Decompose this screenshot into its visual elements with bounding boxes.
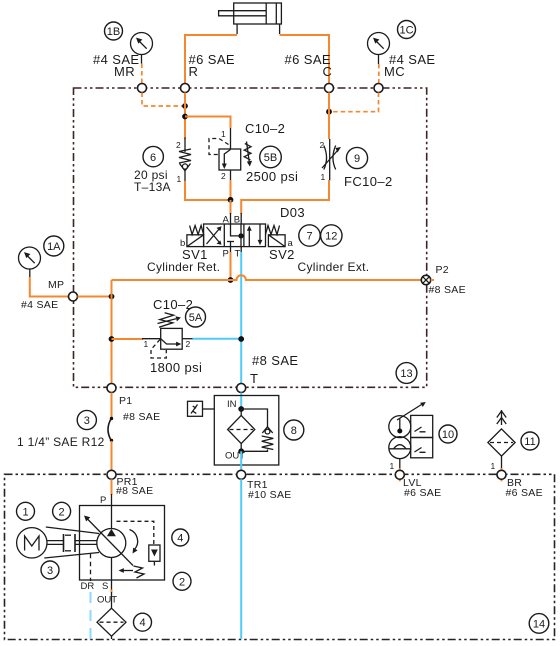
wire C riser [328,93,330,140]
svg-text:14: 14 [533,618,545,630]
D03 box1 crossed arrows [207,226,222,245]
svg-text:2500 psi: 2500 psi [246,169,298,184]
gauge 1C [368,33,390,65]
wire T node to filter IN (cyan) [240,393,242,410]
node LVL [395,470,404,479]
svg-text:OUT: OUT [225,451,245,462]
wire R riser [184,93,186,140]
ref circle 12 [321,225,342,246]
check valve 6 [179,138,191,183]
svg-text:T: T [235,249,241,260]
wire gauge 1A to node MP [30,277,69,297]
cylinder port R-side [236,24,238,34]
svg-text:MR: MR [114,64,135,79]
ref circle 5B [260,146,282,168]
gauge 1A [19,247,41,278]
ref circle 3 (motor) [41,561,59,579]
relief 5A spring [159,313,174,327]
svg-text:P2: P2 [436,264,449,276]
wire FC to rail and B-drop [241,180,329,214]
svg-text:1: 1 [221,129,226,139]
wire TR1 to tank (cyan) [240,479,242,639]
filter element (diamond) [228,409,255,451]
suction strainer 4 [97,592,126,639]
svg-text:#8 SAE: #8 SAE [123,411,160,423]
ref circle 2 (spring) [173,572,191,590]
junction dot MR link [182,103,188,109]
svg-text:1: 1 [22,506,28,518]
gauge 1B [131,33,153,64]
svg-text:R: R [189,64,199,79]
svg-text:2: 2 [176,140,181,150]
svg-text:1 1/4” SAE R12: 1 1/4” SAE R12 [17,435,105,449]
svg-text:DR: DR [81,581,95,592]
wire gauge 1C to node MC (orange dashed) [378,64,380,84]
ref circle 1A [44,236,64,256]
svg-text:9: 9 [354,153,360,165]
svg-text:P: P [100,495,106,506]
svg-text:FC10–2: FC10–2 [344,174,393,189]
relief valve 5B C10-2 [209,128,252,181]
svg-text:Cylinder Ext.: Cylinder Ext. [298,260,370,274]
svg-text:5A: 5A [189,312,203,324]
cylinder rod [219,11,267,16]
svg-text:11: 11 [524,436,535,448]
relief 5B pilot dashed [209,139,229,155]
svg-text:7: 7 [306,231,312,243]
ref circle 5A [186,307,206,327]
D03 left spring [190,226,204,235]
D03 box3 parallel arrows [247,225,262,247]
svg-text:13: 13 [400,368,412,380]
node TR1 [237,470,246,479]
svg-text:#8 SAE: #8 SAE [116,485,153,497]
svg-text:#10 SAE: #10 SAE [248,489,292,501]
pump compensator [117,521,161,578]
ref circle 11 [521,432,539,450]
svg-text:1C: 1C [399,25,413,37]
case drain line to tank (cyan dashed) [90,592,92,639]
wire MR dashed link to R riser [142,93,183,107]
svg-text:1A: 1A [47,241,61,253]
node C [325,84,334,93]
node MR [138,84,147,93]
ref circle 1C [398,21,416,39]
pressure rail MP/P2 (with hop over T line) [112,275,422,280]
wire PR1 to pump P [111,479,113,495]
motor-pump coupling [44,527,99,558]
svg-text:1: 1 [390,461,395,471]
svg-text:#6 SAE: #6 SAE [404,487,441,499]
wire T-drop black stub [240,247,242,253]
flow control 9 FC10-2 [322,139,341,181]
cylinder port C-side [279,24,281,34]
svg-text:2: 2 [59,506,65,518]
svg-text:1: 1 [491,461,496,471]
svg-text:P: P [223,249,229,260]
junction dot P rail [228,277,234,283]
reservoir boundary box (lower, black phantom) [5,474,555,639]
svg-text:MP: MP [48,279,64,291]
wire P-drop orange [230,252,232,280]
wire A-drop black stub [230,213,232,224]
svg-text:10: 10 [442,429,454,441]
svg-text:1: 1 [177,174,182,184]
pump unit box [80,506,165,581]
wire relief 5B outlet to rail [230,180,232,198]
junction dot rail A [228,197,234,203]
junction dot OUT [238,448,244,454]
wire 5A outlet cyan to T line [193,338,242,340]
svg-text:8: 8 [291,425,297,437]
ref circle 9 [346,147,367,168]
svg-text:C10–2: C10–2 [153,297,193,312]
riser P (vertical main pressure line) [111,280,113,384]
wire branch to relief 5B inlet [185,117,231,129]
svg-text:3: 3 [47,565,53,577]
svg-text:5B: 5B [264,152,277,164]
node T [237,384,246,393]
ref circle 10 [439,425,457,443]
motor-pump cone lines [46,527,99,534]
svg-text:P1: P1 [119,395,132,407]
hose symbol [108,418,112,441]
directional valve D03 body [204,224,266,247]
node BR [497,470,506,479]
svg-text:6: 6 [150,152,156,164]
wire A-drop [230,200,232,214]
wire B-drop black stub [240,213,242,224]
D03 solenoid SV1 [187,235,204,247]
ref circle 3 [77,410,96,429]
node P1 [107,384,116,393]
junction dot MC link [326,109,332,115]
ref circle 1B [105,22,123,40]
wire pump S line [111,558,113,590]
junction dot relief branch [182,114,188,120]
D03 right spring [266,226,280,235]
node R [181,84,190,93]
pump 4 (variable displacement) [84,516,138,566]
wire cylinder R-side to node R [185,35,237,84]
svg-text:2: 2 [320,140,325,150]
pump case drain dashed [90,554,92,581]
svg-text:T: T [250,371,258,386]
system boundary box (upper, maroon phantom) [74,88,427,387]
svg-text:1: 1 [144,339,149,349]
filter bypass check valve [241,409,273,451]
junction dot riser/5A branch [109,336,115,342]
ref circle 8 [284,420,304,440]
junction dot IN [238,406,244,412]
wire MC dashed link to C riser [331,93,379,112]
wire cylinder C-side to node C [280,35,329,84]
node MC [374,84,383,93]
junction dot T line / 5A [238,336,244,342]
electric motor M [17,528,47,558]
cylinder CYL [219,3,282,34]
wire hose to PR1 [111,441,113,470]
svg-text:2: 2 [186,339,191,349]
svg-text:4: 4 [139,617,145,629]
svg-text:#8 SAE: #8 SAE [429,284,466,296]
relief 5B spring [244,144,251,160]
relief 5A pilot dashed [151,340,166,359]
svg-text:3: 3 [84,415,90,427]
svg-text:1B: 1B [107,26,120,38]
port P2 symbol [421,275,430,284]
ref circle 1 [17,502,35,520]
svg-text:12: 12 [325,231,337,243]
wire check valve to rail and A-drop rail [185,181,231,200]
svg-text:T–13A: T–13A [134,180,171,194]
svg-text:IN: IN [227,399,237,410]
svg-text:#6 SAE: #6 SAE [506,487,543,499]
wire P1 to hose [111,393,113,419]
svg-text:2: 2 [221,171,226,181]
ref circle 4 (strainer) [134,613,152,631]
svg-text:#4 SAE: #4 SAE [21,299,58,311]
svg-text:1800 psi: 1800 psi [150,360,202,375]
svg-text:D03: D03 [280,205,305,220]
ref circle 2 (top) [53,502,71,520]
ref circle 4 (comp) [172,529,189,546]
svg-text:C: C [323,64,333,79]
node PR1 [107,470,116,479]
temp sensor box [188,401,215,416]
wire P-drop black stub [230,247,232,253]
svg-text:S: S [102,581,108,592]
wire T line cyan (valve T to tank node T) [240,252,242,385]
svg-text:4: 4 [177,533,183,545]
junction dot riser/MP [109,294,115,300]
ref circle 7 [299,225,320,246]
node MP [69,292,78,301]
ref circle 14 [529,614,549,634]
wire filter OUT to TR1 (cyan) [240,451,242,470]
ref circle 13 [396,363,417,384]
wire gauge 1B to node MR (orange dashed) [141,64,143,84]
svg-text:Cylinder Ret.: Cylinder Ret. [147,260,220,274]
svg-text:1: 1 [321,172,326,182]
wire MP to riser [78,296,112,298]
breather 11 [488,410,515,481]
ref circle 6 [143,146,163,166]
relief valve 5A C10-2 [112,313,194,358]
filter assembly 8 box [214,396,278,466]
D03 box2 center position [227,224,244,247]
svg-text:2: 2 [179,576,185,588]
svg-text:MC: MC [384,64,405,79]
D03 solenoid SV2 [268,235,285,247]
svg-text:OUT: OUT [97,595,117,606]
svg-text:C10–2: C10–2 [245,121,285,136]
svg-text:SV2: SV2 [269,247,295,262]
svg-text:#8 SAE: #8 SAE [252,353,299,368]
level gauge assembly 10 [389,402,433,481]
cylinder piston [265,3,267,24]
